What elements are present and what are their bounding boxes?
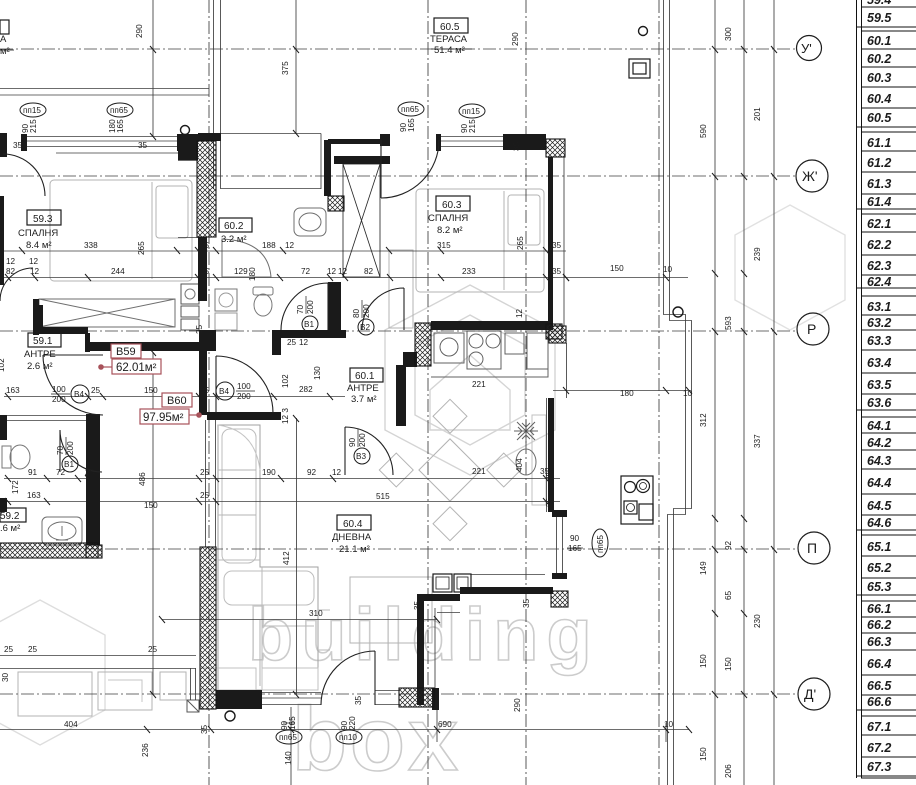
svg-text:337: 337	[753, 434, 762, 448]
grid axis vertical x526	[525, 0, 527, 785]
svg-text:66.2: 66.2	[867, 618, 891, 632]
wall shaft top	[334, 156, 390, 164]
grid axis vertical x433	[427, 0, 429, 785]
svg-text:97.95м²: 97.95м²	[143, 412, 184, 424]
svg-text:35: 35	[413, 600, 422, 610]
hatch wall antre NW	[328, 196, 344, 211]
svg-text:35: 35	[354, 695, 363, 705]
wall living west upper	[199, 351, 207, 415]
svg-text:590: 590	[699, 124, 708, 138]
bed room 60.3	[416, 189, 544, 292]
room label 60.1	[347, 368, 383, 405]
door arc B4 left	[43, 355, 103, 415]
svg-text:пп65: пп65	[110, 106, 128, 115]
svg-text:65: 65	[724, 590, 733, 600]
grid axis horizontal P	[0, 548, 797, 550]
svg-text:165: 165	[568, 544, 582, 553]
svg-text:ТЕРАСА: ТЕРАСА	[430, 34, 468, 45]
svg-text:65.1: 65.1	[867, 540, 891, 554]
svg-text:72: 72	[56, 468, 66, 477]
grid axis horizontal U'	[0, 48, 796, 50]
svg-text:163: 163	[6, 386, 20, 395]
wall niche north	[417, 594, 460, 601]
svg-text:215: 215	[468, 119, 477, 133]
svg-text:70: 70	[296, 304, 305, 314]
svg-text:60.5: 60.5	[440, 22, 460, 33]
svg-text:пп10: пп10	[339, 733, 357, 742]
svg-text:8.2 м²: 8.2 м²	[437, 225, 463, 236]
svg-text:59.3: 59.3	[33, 214, 53, 225]
svg-text:64.4: 64.4	[867, 476, 891, 490]
window label pp65 top3	[398, 102, 424, 132]
svg-text:200: 200	[358, 433, 367, 447]
svg-text:35: 35	[200, 724, 209, 734]
dim line 310	[162, 619, 437, 621]
svg-text:61.1: 61.1	[867, 136, 891, 150]
toilet 60.2	[254, 294, 272, 316]
wall kitchen top	[431, 321, 553, 330]
grid axis horizontal Zh'	[0, 175, 795, 177]
svg-text:СПАЛНЯ: СПАЛНЯ	[18, 228, 58, 239]
svg-text:375: 375	[281, 61, 290, 75]
svg-text:25: 25	[4, 645, 14, 654]
svg-text:60.3: 60.3	[867, 71, 891, 85]
svg-text:221: 221	[472, 467, 486, 476]
wardrobe 60.3	[389, 250, 413, 328]
svg-text:63.3: 63.3	[867, 334, 891, 348]
door label B4 left	[51, 385, 89, 404]
svg-text:310: 310	[309, 609, 323, 618]
door label B1 bath59	[56, 437, 78, 472]
marker top wall	[181, 126, 190, 135]
svg-text:72: 72	[301, 267, 311, 276]
dining table set	[379, 399, 520, 540]
dim chain y501	[4, 501, 560, 503]
svg-text:130: 130	[313, 366, 322, 380]
svg-text:230: 230	[753, 614, 762, 628]
coffee table 60.4	[350, 577, 432, 643]
hatch wall 60.3 NE	[546, 139, 565, 157]
hatch wall kitchen west	[415, 323, 431, 366]
wall living east	[548, 398, 554, 512]
wall step up landing	[199, 330, 216, 351]
svg-text:188: 188	[262, 241, 276, 250]
door label B4 right	[216, 382, 255, 401]
shower corner 60.2	[222, 239, 271, 277]
closet jamb corner	[35, 305, 43, 334]
window label pp10 bottom	[336, 716, 362, 744]
svg-text:10: 10	[683, 389, 693, 398]
dim chain bottom y729	[0, 729, 689, 731]
svg-text:м²: м²	[0, 46, 10, 57]
snowflake AC	[514, 419, 538, 443]
door arc B4 right	[216, 356, 273, 413]
svg-text:690: 690	[438, 720, 452, 729]
watermark partial hexagon left	[0, 600, 105, 745]
hatched wall segments	[0, 139, 568, 709]
svg-text:В4: В4	[219, 387, 229, 396]
dim chain B x744	[743, 0, 745, 785]
svg-text:12: 12	[327, 267, 337, 276]
svg-text:12: 12	[285, 241, 295, 250]
svg-text:159: 159	[0, 732, 2, 746]
svg-text:В2: В2	[360, 323, 370, 332]
red label B60	[140, 393, 202, 424]
wall band under closet	[35, 327, 88, 334]
svg-text:129: 129	[234, 267, 248, 276]
wall kitchen corner	[403, 352, 417, 367]
svg-text:300: 300	[724, 27, 733, 41]
svg-text:Д': Д'	[804, 686, 816, 702]
svg-text:.6 м²: .6 м²	[0, 523, 20, 534]
svg-text:35: 35	[545, 497, 554, 507]
svg-text:35: 35	[552, 267, 562, 276]
svg-text:12 3: 12 3	[281, 408, 290, 424]
svg-text:25: 25	[200, 468, 210, 477]
room label 59.1	[24, 333, 61, 372]
hatch wall balcony south	[399, 688, 434, 707]
svg-text:150: 150	[610, 264, 624, 273]
thin wall lines niche	[435, 575, 545, 705]
label 404 circle	[515, 449, 536, 475]
svg-text:282: 282	[299, 385, 313, 394]
shaft top lines	[334, 157, 390, 164]
svg-text:140: 140	[284, 751, 293, 765]
sofa L 60.4	[218, 425, 318, 690]
door label B2 antre	[352, 300, 374, 335]
room label 59.2	[0, 508, 26, 534]
marker terrace	[639, 27, 648, 36]
svg-text:200: 200	[362, 304, 371, 318]
svg-text:486: 486	[138, 472, 147, 486]
svg-text:150: 150	[699, 654, 708, 668]
svg-text:165: 165	[116, 119, 125, 133]
svg-text:239: 239	[753, 247, 762, 261]
svg-text:30: 30	[1, 672, 10, 682]
svg-text:51.4 м²: 51.4 м²	[434, 45, 465, 56]
svg-text:12: 12	[515, 308, 524, 318]
kitchen 59x niche lines	[178, 161, 198, 238]
svg-text:67.1: 67.1	[867, 720, 891, 734]
svg-text:25: 25	[200, 267, 210, 276]
wall bath west upper	[324, 140, 331, 196]
dim chain y271	[4, 277, 688, 279]
svg-text:150: 150	[724, 657, 733, 671]
svg-text:35: 35	[545, 471, 554, 481]
svg-text:338: 338	[84, 241, 98, 250]
svg-text:63.1: 63.1	[867, 300, 891, 314]
svg-text:63.4: 63.4	[867, 356, 891, 370]
svg-text:35: 35	[138, 141, 148, 150]
slab edge top	[214, 0, 221, 189]
washer 60.2	[215, 289, 237, 311]
terrace light square	[629, 59, 650, 78]
wall antre east	[396, 365, 406, 426]
hatch wall kitchen NE	[546, 324, 562, 339]
svg-text:206: 206	[724, 764, 733, 778]
svg-text:91: 91	[28, 468, 38, 477]
window lines balcony door wall	[262, 693, 321, 705]
wall landing to antre	[281, 330, 346, 338]
svg-text:25: 25	[200, 241, 210, 250]
svg-text:25: 25	[287, 338, 297, 347]
svg-text:82: 82	[364, 267, 374, 276]
dim line vertical 486	[152, 352, 154, 694]
svg-text:62.1: 62.1	[867, 217, 891, 231]
svg-text:230: 230	[0, 221, 5, 235]
door arc B3 antre-living	[345, 427, 393, 475]
svg-text:59.1: 59.1	[33, 336, 53, 347]
dim line 180 right	[553, 390, 688, 392]
room label 60.2	[219, 218, 252, 245]
marker building edge	[673, 307, 683, 317]
window jamb mid	[177, 134, 183, 151]
svg-text:200: 200	[306, 300, 315, 314]
svg-text:пп65: пп65	[279, 733, 297, 742]
dim chain A x715	[714, 0, 716, 785]
hatch wall niche east	[551, 591, 568, 607]
svg-text:12: 12	[332, 468, 342, 477]
watermark logo hexagon	[385, 285, 555, 475]
wall left small 2	[0, 498, 7, 512]
wall center column	[198, 237, 207, 301]
window label pp15 top4	[459, 104, 485, 133]
terrace recess above bath	[221, 134, 321, 190]
svg-text:62.01м²: 62.01м²	[116, 362, 157, 374]
svg-text:102: 102	[281, 374, 290, 388]
wall top over bath 60.2	[198, 133, 221, 141]
svg-text:59.5: 59.5	[867, 11, 892, 25]
room label 60.5 terrace	[430, 18, 472, 56]
tv shelf 60.4	[532, 415, 546, 505]
svg-text:82: 82	[6, 267, 16, 276]
svg-text:2.6 м²: 2.6 м²	[27, 361, 53, 372]
svg-text:312: 312	[699, 413, 708, 427]
svg-text:63.2: 63.2	[867, 316, 891, 330]
svg-text:64.3: 64.3	[867, 454, 891, 468]
svg-text:412: 412	[282, 551, 291, 565]
svg-text:3.7 м²: 3.7 м²	[351, 394, 377, 405]
svg-text:60.2: 60.2	[224, 221, 244, 232]
svg-text:10: 10	[663, 265, 673, 274]
dim chain y396	[4, 396, 345, 398]
svg-text:25: 25	[195, 324, 204, 334]
svg-text:А: А	[0, 34, 7, 45]
svg-text:233: 233	[462, 267, 476, 276]
svg-text:65.2: 65.2	[867, 561, 891, 575]
wall left small 1	[0, 415, 7, 440]
svg-text:404: 404	[64, 720, 78, 729]
svg-text:35: 35	[552, 241, 562, 250]
wall right of B4 door	[272, 330, 281, 355]
window label pp15 top1	[20, 103, 46, 133]
room label corner fragment	[0, 20, 14, 57]
window lines 60.3	[441, 137, 503, 147]
toilet 59.2a	[10, 445, 30, 469]
wall 60.3 east	[548, 157, 553, 326]
svg-text:59.4: 59.4	[867, 0, 891, 7]
svg-text:АНТРЕ: АНТРЕ	[24, 349, 56, 360]
svg-text:25: 25	[28, 645, 38, 654]
svg-text:59.2: 59.2	[0, 511, 20, 522]
stove legend exterior	[621, 476, 653, 524]
door arc bath59	[60, 430, 102, 472]
svg-text:60.4: 60.4	[867, 92, 891, 106]
svg-text:пп65: пп65	[401, 105, 419, 114]
wall 60.3 top east	[503, 134, 546, 150]
svg-text:25: 25	[148, 645, 158, 654]
svg-text:100: 100	[52, 385, 66, 394]
svg-text:10: 10	[664, 720, 674, 729]
kitchenette cabinets 59.x	[181, 284, 199, 304]
svg-text:В1: В1	[304, 320, 314, 329]
svg-text:150: 150	[144, 386, 158, 395]
svg-text:102: 102	[0, 358, 6, 372]
wall niche west	[417, 594, 424, 705]
svg-text:150: 150	[699, 747, 708, 761]
svg-text:172: 172	[11, 480, 20, 494]
svg-text:пп15: пп15	[23, 106, 41, 115]
furniture layer	[2, 180, 548, 716]
wall corner 59.3 NE	[178, 134, 198, 160]
room label 59.3	[18, 210, 61, 251]
dimension texts horizontal	[0, 24, 762, 778]
svg-text:220: 220	[348, 716, 357, 730]
svg-text:8.4 м²: 8.4 м²	[26, 240, 52, 251]
living west wall lines	[206, 420, 216, 547]
wall left mid	[0, 196, 4, 285]
svg-text:62.3: 62.3	[867, 259, 891, 273]
room label 60.3	[428, 196, 470, 236]
svg-text:165: 165	[407, 118, 416, 132]
closet X 59.3	[39, 299, 175, 327]
svg-text:236: 236	[141, 743, 150, 757]
svg-text:66.4: 66.4	[867, 657, 891, 671]
svg-text:201: 201	[753, 107, 762, 121]
svg-text:В60: В60	[167, 395, 187, 407]
svg-text:61.4: 61.4	[867, 195, 891, 209]
neighbour furniture bottom-left	[18, 672, 92, 716]
svg-text:В59: В59	[116, 346, 136, 358]
svg-text:В4: В4	[74, 390, 84, 399]
dim line vertical 290 top	[152, 0, 154, 136]
svg-text:пп65: пп65	[596, 535, 605, 553]
sink 59.2	[42, 517, 82, 545]
grid axis vertical x209	[208, 0, 210, 785]
door label B1 bath60.2	[296, 296, 318, 332]
grid bubble R	[797, 313, 829, 345]
svg-text:12: 12	[30, 267, 40, 276]
svg-text:60.1: 60.1	[867, 34, 891, 48]
grid axis horizontal R	[0, 330, 796, 332]
svg-text:60.2: 60.2	[867, 52, 891, 66]
svg-text:80: 80	[352, 308, 361, 318]
svg-text:66.6: 66.6	[867, 695, 892, 709]
window sill detail	[187, 700, 199, 712]
door arc B1 bath60.2	[281, 283, 328, 330]
svg-text:АНТРЕ: АНТРЕ	[347, 383, 379, 394]
window right wall vertical	[557, 516, 563, 573]
marker bottom corner	[225, 711, 235, 721]
svg-text:200: 200	[52, 395, 66, 404]
window lines 59.3	[26, 137, 178, 154]
svg-text:65.3: 65.3	[867, 580, 891, 594]
svg-text:149: 149	[699, 561, 708, 575]
building edge inner	[670, 0, 692, 785]
wall left top stub	[0, 133, 7, 157]
dim line vertical 412	[296, 418, 298, 694]
svg-text:П: П	[807, 540, 817, 556]
svg-text:221: 221	[472, 380, 486, 389]
hatch wall center top	[197, 141, 216, 237]
svg-text:90: 90	[570, 534, 580, 543]
svg-text:67.2: 67.2	[867, 741, 891, 755]
svg-text:200: 200	[66, 441, 75, 455]
wall kitchen south	[460, 587, 553, 594]
grid bubble U'	[797, 36, 822, 61]
svg-text:244: 244	[111, 267, 125, 276]
svg-text:В1: В1	[64, 460, 74, 469]
svg-text:404: 404	[515, 458, 524, 472]
shaft box	[343, 164, 380, 277]
svg-text:163: 163	[27, 491, 41, 500]
svg-text:пп15: пп15	[462, 107, 480, 116]
svg-text:150: 150	[144, 501, 158, 510]
svg-text:265: 265	[137, 241, 146, 255]
svg-text:В3: В3	[356, 452, 366, 461]
svg-text:64.5: 64.5	[867, 499, 892, 513]
hatch wall bath59 south	[0, 543, 98, 558]
door arcs	[0, 140, 439, 705]
dim chain y246	[4, 250, 566, 252]
svg-text:61.2: 61.2	[867, 156, 891, 170]
svg-text:92: 92	[724, 540, 733, 550]
hatch wall living west column	[200, 547, 216, 709]
svg-text:593: 593	[724, 316, 733, 330]
wall strip to door 60.3	[328, 139, 380, 144]
window jamb left	[21, 134, 27, 151]
svg-text:290: 290	[513, 698, 522, 712]
svg-text:200: 200	[237, 392, 251, 401]
red label B59	[98, 344, 161, 374]
svg-text:25: 25	[91, 386, 101, 395]
window label pp65 right wall	[567, 529, 608, 557]
svg-text:62.2: 62.2	[867, 238, 891, 252]
svg-text:190: 190	[262, 468, 276, 477]
wall bottom right cap	[432, 688, 439, 710]
wall bath59 east	[86, 414, 100, 545]
door label B3 antre	[348, 429, 370, 464]
kitchen counter 60.4	[431, 340, 548, 377]
dim line vertical 375 top	[295, 0, 297, 133]
door arc 59.3 to 59.1	[0, 268, 33, 301]
svg-text:У': У'	[801, 41, 812, 56]
svg-text:64.2: 64.2	[867, 436, 891, 450]
svg-text:СПАЛНЯ: СПАЛНЯ	[428, 213, 468, 224]
grid bubble P	[798, 532, 830, 564]
svg-text:315: 315	[437, 241, 451, 250]
door arc balcony	[321, 651, 375, 705]
svg-text:12: 12	[338, 267, 348, 276]
grid bubble D'	[798, 678, 830, 710]
grid axis vertical x659	[658, 0, 660, 785]
svg-text:180: 180	[620, 389, 634, 398]
svg-text:3.2 м²: 3.2 м²	[221, 234, 247, 245]
svg-text:66.1: 66.1	[867, 602, 891, 616]
svg-text:515: 515	[376, 492, 390, 501]
svg-text:66.5: 66.5	[867, 679, 892, 693]
svg-text:290: 290	[135, 24, 144, 38]
